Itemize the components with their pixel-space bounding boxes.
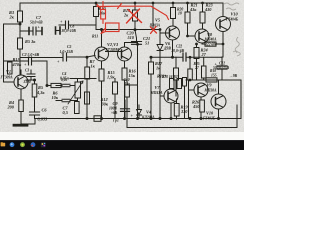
taskbar xyxy=(0,140,244,150)
svg-text:ГТ309А: ГТ309А xyxy=(0,76,13,80)
wire out mid xyxy=(202,43,223,57)
red cross V5 xyxy=(151,27,157,34)
svg-text:C22: C22 xyxy=(176,45,182,49)
resistor R23 xyxy=(200,12,205,23)
wire C20 xyxy=(135,30,137,42)
transistor V10 xyxy=(216,17,231,32)
paper background xyxy=(0,0,244,140)
wire x153 drop xyxy=(152,3,154,30)
resistor R24 xyxy=(194,48,199,59)
capacitor C9 xyxy=(121,109,130,112)
svg-text:V5: V5 xyxy=(155,18,161,23)
resistor R3 xyxy=(18,11,23,22)
wire x139 xyxy=(127,44,138,119)
resistor R26 xyxy=(200,100,205,112)
svg-text:1,9к: 1,9к xyxy=(107,75,115,80)
transistor V9 xyxy=(194,83,208,97)
red cross R13 xyxy=(127,9,142,23)
diode V4 xyxy=(137,110,142,116)
watermark top right xyxy=(224,3,240,56)
capacitor C7 xyxy=(33,27,36,35)
ground xyxy=(14,124,27,127)
resistor R19 xyxy=(174,104,179,117)
transistor V2 xyxy=(95,47,109,61)
capacitor C12 xyxy=(217,66,227,69)
svg-text:51: 51 xyxy=(145,41,149,46)
wire to left edge xyxy=(4,24,21,82)
capacitor C3 xyxy=(27,74,35,77)
resistor R6 xyxy=(51,83,61,87)
taskbar icon colorful xyxy=(41,142,46,147)
wire diode column xyxy=(159,30,161,120)
resistor R21 xyxy=(185,12,190,23)
svg-text:0,033: 0,033 xyxy=(38,117,49,122)
resistor R25 xyxy=(202,66,207,78)
red rect annotation xyxy=(106,23,120,32)
svg-text:27: 27 xyxy=(194,66,199,70)
wire to ground xyxy=(21,112,35,125)
svg-text:0,05: 0,05 xyxy=(61,78,67,82)
svg-text:20,0×6В: 20,0×6В xyxy=(171,49,185,53)
capacitor C5 xyxy=(63,53,67,61)
svg-text:100,0: 100,0 xyxy=(109,107,117,111)
svg-text:ГТ404Б: ГТ404Б xyxy=(225,18,239,22)
svg-text:30,0×10В: 30,0×10В xyxy=(61,29,77,33)
wire C8 row xyxy=(59,24,96,26)
resistor R7 xyxy=(85,67,90,79)
red resistor sketch xyxy=(102,2,104,10)
bottom box xyxy=(127,105,237,128)
wire out rail xyxy=(186,80,241,118)
svg-text:C2 5,0×6В: C2 5,0×6В xyxy=(22,53,40,57)
small box bottom xyxy=(75,102,80,114)
svg-text:МП40А: МП40А xyxy=(204,38,218,42)
wire C2 row xyxy=(4,61,48,86)
svg-text:Гр1: Гр1 xyxy=(112,119,119,123)
svg-text:C6: C6 xyxy=(42,108,48,113)
svg-text:МП41А: МП41А xyxy=(150,91,164,95)
svg-text:Д9В: Д9В xyxy=(163,47,171,51)
taskbar icon blue sphere xyxy=(31,142,36,147)
resistor R16 xyxy=(122,68,127,80)
svg-text:R20 16 R21: R20 16 R21 xyxy=(162,75,180,79)
transistor V10b xyxy=(211,94,226,109)
svg-text:V8: V8 xyxy=(207,32,213,37)
resistor R12m xyxy=(85,92,90,104)
svg-text:V6: V6 xyxy=(165,41,171,46)
resistor x115 xyxy=(113,82,118,94)
svg-text:C8: C8 xyxy=(70,25,74,29)
svg-text:ГТ403Б: ГТ403Б xyxy=(202,117,216,121)
svg-text:V9: V9 xyxy=(207,83,213,88)
node junctions left xyxy=(19,23,21,25)
svg-text:43к: 43к xyxy=(189,7,197,12)
svg-text:C4: C4 xyxy=(62,72,66,76)
svg-text:C12: C12 xyxy=(219,62,225,66)
svg-text:2к: 2к xyxy=(123,13,129,18)
svg-text:V10: V10 xyxy=(231,12,239,17)
resistor R5 xyxy=(18,38,23,49)
svg-text:30к: 30к xyxy=(101,102,109,107)
resistor R27 xyxy=(188,69,193,80)
svg-text:200: 200 xyxy=(7,105,15,110)
wire y78 xyxy=(70,78,96,80)
wire top rail xyxy=(20,2,223,4)
resistor R15 xyxy=(99,69,104,81)
svg-text:1,0×15В: 1,0×15В xyxy=(60,50,74,54)
svg-text:450: 450 xyxy=(192,104,200,109)
svg-text:V4: V4 xyxy=(146,110,152,115)
wire C5 row xyxy=(21,56,96,58)
resistor R20t xyxy=(171,8,176,19)
wire out row xyxy=(151,56,222,58)
resistor R13 xyxy=(133,10,138,21)
svg-text:×6В: ×6В xyxy=(111,111,118,115)
svg-text:4,3к: 4,3к xyxy=(36,90,45,95)
transistor V5 xyxy=(166,26,180,40)
capacitor C2 xyxy=(29,57,32,65)
svg-text:27: 27 xyxy=(201,52,207,57)
svg-text:2к: 2к xyxy=(9,15,15,20)
bottom jack box xyxy=(94,116,101,122)
svg-text:V1: V1 xyxy=(6,69,11,74)
capacitor C6 xyxy=(30,112,40,115)
transistor V1 xyxy=(14,75,28,89)
potentiometer R11 xyxy=(75,82,81,98)
resistor R10 xyxy=(94,7,99,17)
resistor R1* xyxy=(8,62,13,74)
resistor R4 xyxy=(19,100,24,112)
pot R11 caps xyxy=(62,84,70,87)
svg-text:R11: R11 xyxy=(92,35,98,39)
resistor small x184 xyxy=(183,78,187,87)
diode V6 xyxy=(157,45,163,51)
wire V5 column xyxy=(172,3,174,26)
svg-text:V10: V10 xyxy=(206,111,214,116)
capacitor C20 xyxy=(132,42,142,45)
svg-text:C5: C5 xyxy=(67,45,72,49)
taskbar icon folder xyxy=(1,143,6,147)
svg-text:500,0×15В: 500,0×15В xyxy=(213,66,230,70)
resistor R26h xyxy=(206,78,217,82)
svg-text:R22 680: R22 680 xyxy=(205,43,217,47)
junction dots bottom xyxy=(86,118,88,120)
wire mid-left xyxy=(26,80,35,124)
transistor V3 xyxy=(118,47,132,61)
svg-text:V7: V7 xyxy=(155,85,161,90)
bottom rail xyxy=(35,118,241,120)
taskbar icon blue browser xyxy=(10,142,15,147)
svg-text:V2,V3: V2,V3 xyxy=(107,42,119,47)
red pointer line xyxy=(97,4,169,20)
svg-text:C3: C3 xyxy=(25,69,29,73)
resistor R5b xyxy=(32,84,37,97)
connector H jack xyxy=(56,27,61,34)
svg-text:3300: 3300 xyxy=(23,80,31,84)
wire left column x20 xyxy=(19,3,21,75)
node rail junctions xyxy=(95,2,97,4)
resistor R22h xyxy=(205,42,216,46)
svg-text:330: 330 xyxy=(180,109,188,114)
svg-text:→9В: →9В xyxy=(229,74,238,78)
red annotations xyxy=(97,2,169,34)
svg-text:10к: 10к xyxy=(52,95,59,100)
wire x184 xyxy=(184,86,186,118)
svg-text:18: 18 xyxy=(178,12,182,16)
svg-text:15в: 15в xyxy=(125,82,131,86)
resistor boxes above V7 xyxy=(170,79,175,89)
svg-text:КД202А: КД202А xyxy=(141,116,155,120)
transistor V8 xyxy=(195,29,209,43)
wire stage2 top xyxy=(96,30,160,48)
resistor x127 xyxy=(125,85,130,97)
transistor V7 xyxy=(164,89,178,103)
wire C7 branch xyxy=(20,30,42,32)
svg-text:МП38А: МП38А xyxy=(204,89,218,93)
svg-text:C9: C9 xyxy=(113,101,119,106)
svg-text:430: 430 xyxy=(204,7,212,12)
svg-text:510: 510 xyxy=(128,35,135,40)
svg-text:155: 155 xyxy=(211,74,217,78)
resistor R17 xyxy=(149,62,154,74)
capacitor C8 xyxy=(66,21,69,29)
capacitor C22 xyxy=(183,53,186,61)
resistor R19s xyxy=(174,68,179,80)
svg-text:ГТ309М: ГТ309М xyxy=(105,48,120,52)
svg-text:0,5: 0,5 xyxy=(63,110,69,115)
wire V2-V3 link xyxy=(106,51,122,53)
svg-text:470к: 470к xyxy=(12,62,22,67)
taskbar icon green ring xyxy=(20,142,25,147)
svg-text:C7: C7 xyxy=(36,15,42,20)
svg-text:R5 3к: R5 3к xyxy=(25,39,36,44)
